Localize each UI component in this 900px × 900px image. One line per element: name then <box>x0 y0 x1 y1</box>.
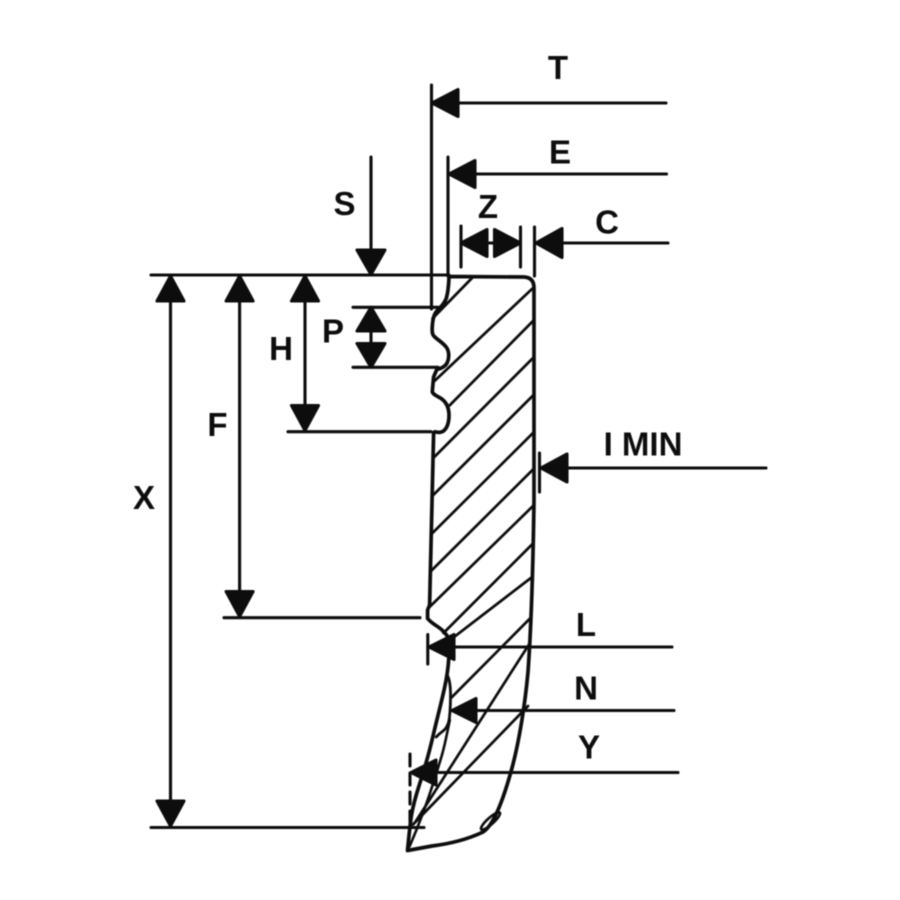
hatch line 5 <box>433 395 534 496</box>
hatch line 8 <box>429 506 534 608</box>
dimension L tick <box>426 635 429 665</box>
dimension X bottom arrowhead <box>157 801 184 826</box>
dimension F datum line <box>224 616 420 619</box>
hatch line 4 <box>434 357 534 458</box>
hatch line 7 <box>431 469 534 572</box>
hatch line 12 <box>416 644 529 821</box>
dimension Z left tick <box>459 226 462 267</box>
dimension Y line <box>411 771 678 774</box>
dimension P top line <box>353 306 439 309</box>
dimension S arrowhead <box>357 250 385 275</box>
hatch line 13 <box>413 706 528 825</box>
hatch line 1 <box>433 278 473 319</box>
dimension X top arrowhead <box>157 276 184 301</box>
dimension F line <box>238 277 241 615</box>
svg-text:X: X <box>133 479 155 516</box>
dimension E extension line <box>446 157 449 276</box>
svg-text:S: S <box>333 185 355 222</box>
dimension T extension line <box>430 85 433 309</box>
dimension H top arrowhead <box>292 276 319 301</box>
dimension L line <box>429 645 672 648</box>
dimension L arrowhead <box>429 635 454 660</box>
dimension I MIN line <box>541 466 766 469</box>
svg-text:F: F <box>207 406 227 443</box>
dimension H bottom arrowhead <box>292 406 319 431</box>
hatch line 3 <box>450 320 535 406</box>
top datum line <box>151 273 449 276</box>
hatch line 6 <box>432 432 534 534</box>
dimension Z right tick <box>519 227 522 267</box>
dimension P stem <box>369 309 372 366</box>
dimension N line <box>452 709 674 712</box>
dimension F top arrowhead <box>226 276 253 301</box>
bottom curl loop <box>479 810 502 831</box>
inner lip edge line <box>410 720 450 847</box>
dimension N arrowhead <box>452 699 476 723</box>
dimension P bottom line <box>353 366 438 369</box>
dimension T line <box>432 101 666 104</box>
hatch line 9 <box>444 544 534 634</box>
dimension H line <box>303 277 306 429</box>
dimension C line <box>536 241 668 244</box>
dimension I MIN arrowhead <box>541 454 567 482</box>
hatch line 11 <box>452 618 531 698</box>
dimension Z right arrowhead <box>495 230 521 257</box>
dimension F bottom arrowhead <box>226 592 253 617</box>
dimension E line <box>449 172 667 175</box>
svg-text:L: L <box>576 606 596 643</box>
svg-text:P: P <box>322 313 344 350</box>
dimension X line <box>169 277 172 825</box>
svg-text:Y: Y <box>578 729 600 766</box>
svg-text:Z: Z <box>478 188 498 225</box>
dimension Y arrowhead <box>411 760 436 785</box>
dimension Z line <box>461 241 521 244</box>
dimension I MIN tick <box>538 453 541 492</box>
part outline (bottle finish cross-section) <box>408 277 535 851</box>
dimension C arrowhead <box>536 229 562 258</box>
bottom datum line <box>151 826 424 829</box>
dimension S leader line <box>369 157 372 252</box>
dimension P up arrowhead <box>357 307 385 331</box>
dimension Y extension line (dashed) <box>408 754 411 822</box>
inner lip bead outline <box>436 675 450 737</box>
dimension H datum line <box>288 430 431 433</box>
dimension C tick <box>533 227 536 276</box>
dimension T arrowhead <box>432 90 458 117</box>
dimension P down arrowhead <box>357 344 385 368</box>
svg-text:C: C <box>595 204 619 241</box>
svg-text:H: H <box>269 330 293 367</box>
hatch line 2 <box>435 289 533 382</box>
svg-text:E: E <box>549 134 571 171</box>
hatch line 10 <box>450 578 532 641</box>
svg-text:T: T <box>548 49 568 86</box>
svg-text:I MIN: I MIN <box>604 426 683 463</box>
dimension E arrowhead <box>449 161 475 188</box>
svg-text:N: N <box>574 670 598 707</box>
dimension Z left arrowhead <box>461 230 487 257</box>
